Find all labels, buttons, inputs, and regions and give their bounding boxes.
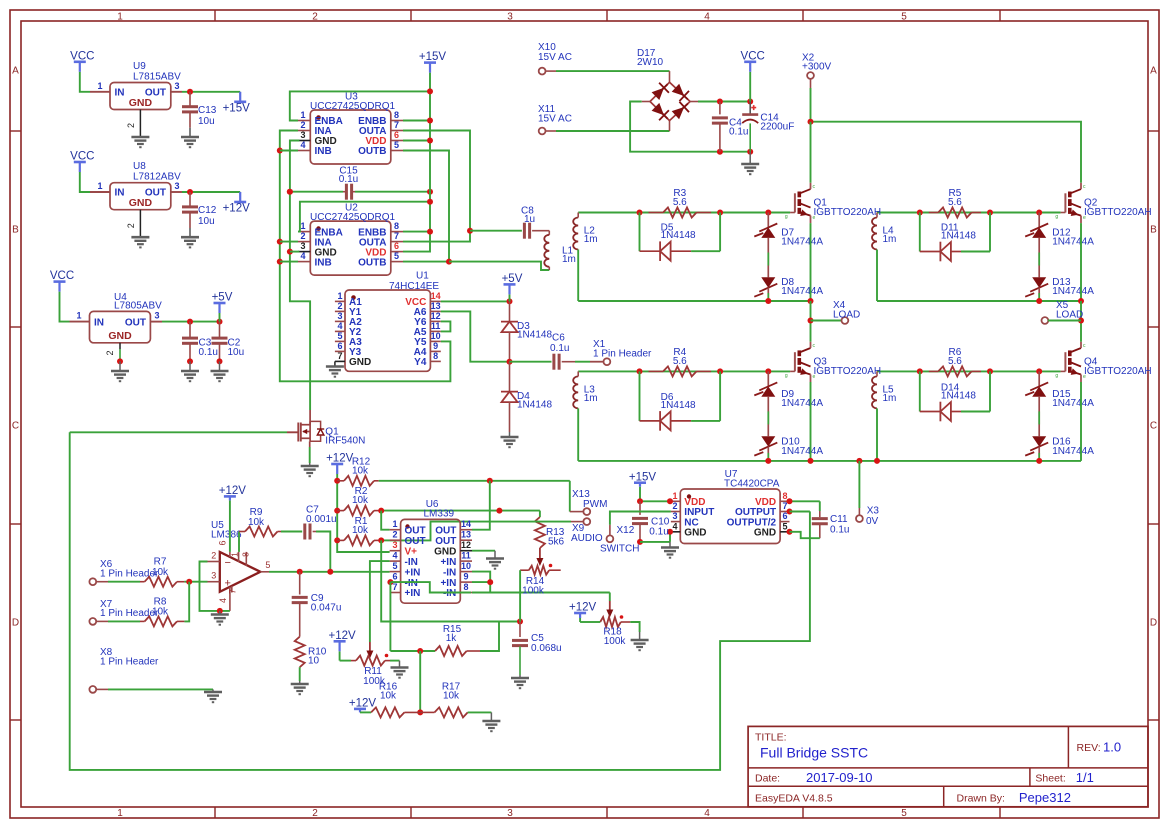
svg-text:GND: GND bbox=[349, 357, 371, 368]
svg-text:1N4744A: 1N4744A bbox=[781, 286, 823, 297]
svg-text:1m: 1m bbox=[883, 234, 897, 245]
svg-text:2: 2 bbox=[392, 530, 397, 540]
svg-text:1m: 1m bbox=[584, 393, 598, 404]
svg-text:VCC: VCC bbox=[741, 50, 765, 62]
svg-text:5.6: 5.6 bbox=[673, 197, 687, 208]
svg-text:10k: 10k bbox=[352, 495, 369, 506]
svg-text:1N4744A: 1N4744A bbox=[1052, 237, 1094, 248]
svg-text:1: 1 bbox=[337, 291, 342, 301]
svg-text:10: 10 bbox=[461, 561, 471, 571]
svg-text:+12V: +12V bbox=[326, 453, 354, 465]
svg-text:−: − bbox=[225, 557, 231, 569]
svg-text:14: 14 bbox=[431, 291, 441, 301]
svg-text:GND: GND bbox=[434, 546, 456, 557]
svg-text:1N4744A: 1N4744A bbox=[781, 398, 823, 409]
svg-text:IGBTTO220AH: IGBTTO220AH bbox=[1084, 207, 1152, 218]
svg-text:OUT: OUT bbox=[405, 536, 426, 547]
svg-text:g: g bbox=[1055, 373, 1058, 379]
svg-text:INB: INB bbox=[315, 146, 332, 157]
svg-text:5: 5 bbox=[901, 808, 907, 819]
svg-text:1u: 1u bbox=[524, 214, 535, 225]
svg-text:+IN: +IN bbox=[440, 578, 456, 589]
svg-text:11: 11 bbox=[431, 321, 441, 331]
svg-text:GND: GND bbox=[684, 528, 706, 539]
svg-text:+12V: +12V bbox=[569, 602, 597, 614]
svg-text:9: 9 bbox=[463, 572, 468, 582]
svg-text:10k: 10k bbox=[152, 567, 169, 578]
svg-text:1 Pin Header: 1 Pin Header bbox=[593, 348, 652, 359]
svg-text:C11: C11 bbox=[830, 514, 848, 525]
svg-text:4: 4 bbox=[672, 521, 677, 531]
svg-text:8: 8 bbox=[241, 552, 251, 557]
svg-text:LM386: LM386 bbox=[211, 530, 242, 541]
svg-text:10: 10 bbox=[431, 331, 441, 341]
svg-text:11: 11 bbox=[461, 551, 471, 561]
svg-text:1N4148: 1N4148 bbox=[941, 231, 976, 242]
svg-text:3: 3 bbox=[300, 241, 305, 251]
svg-text:VCC: VCC bbox=[70, 50, 94, 62]
svg-text:+300V: +300V bbox=[802, 61, 832, 72]
svg-text:5: 5 bbox=[265, 560, 270, 570]
svg-text:100k: 100k bbox=[522, 586, 545, 597]
svg-text:2017-09-10: 2017-09-10 bbox=[806, 770, 873, 785]
svg-text:3: 3 bbox=[174, 181, 179, 191]
svg-text:+12V: +12V bbox=[219, 485, 247, 497]
svg-text:2: 2 bbox=[300, 231, 305, 241]
svg-text:TITLE:: TITLE: bbox=[755, 732, 787, 744]
svg-text:1.0: 1.0 bbox=[1103, 740, 1121, 755]
svg-text:10u: 10u bbox=[228, 347, 245, 358]
svg-text:C12: C12 bbox=[198, 205, 217, 216]
svg-text:1: 1 bbox=[117, 12, 123, 23]
svg-text:0.1u: 0.1u bbox=[199, 347, 218, 358]
svg-text:1: 1 bbox=[97, 81, 102, 91]
svg-text:8: 8 bbox=[394, 221, 399, 231]
svg-text:D: D bbox=[12, 618, 19, 629]
svg-text:B: B bbox=[1150, 225, 1157, 236]
svg-text:10k: 10k bbox=[352, 525, 369, 536]
svg-text:5.6: 5.6 bbox=[673, 356, 687, 367]
svg-text:5: 5 bbox=[394, 251, 399, 261]
svg-text:6: 6 bbox=[217, 540, 227, 545]
svg-text:1: 1 bbox=[230, 552, 240, 557]
svg-text:1: 1 bbox=[97, 181, 102, 191]
svg-text:+12V: +12V bbox=[349, 698, 377, 710]
svg-text:2: 2 bbox=[312, 12, 318, 23]
svg-text:-IN: -IN bbox=[443, 567, 456, 578]
svg-text:8: 8 bbox=[433, 351, 438, 361]
svg-text:TC4420CPA: TC4420CPA bbox=[724, 479, 780, 490]
svg-text:5: 5 bbox=[782, 521, 787, 531]
svg-text:GND: GND bbox=[108, 330, 132, 342]
svg-text:LOAD: LOAD bbox=[833, 310, 860, 321]
svg-text:REV:: REV: bbox=[1077, 742, 1101, 754]
svg-text:VCC: VCC bbox=[70, 151, 94, 163]
svg-text:7: 7 bbox=[394, 231, 399, 241]
svg-text:3: 3 bbox=[300, 130, 305, 140]
svg-text:IN: IN bbox=[115, 88, 125, 99]
svg-text:2200uF: 2200uF bbox=[760, 121, 794, 132]
svg-text:OUTB: OUTB bbox=[358, 146, 386, 157]
svg-text:5.6: 5.6 bbox=[948, 197, 962, 208]
svg-text:1: 1 bbox=[300, 110, 305, 120]
svg-text:3: 3 bbox=[154, 311, 159, 321]
svg-text:X12: X12 bbox=[617, 525, 635, 536]
svg-text:VCC: VCC bbox=[50, 270, 74, 282]
svg-text:IGBTTO220AH: IGBTTO220AH bbox=[814, 366, 882, 377]
svg-text:GND: GND bbox=[129, 197, 153, 209]
svg-text:GND: GND bbox=[129, 97, 153, 109]
svg-text:Pepe312: Pepe312 bbox=[1019, 790, 1071, 805]
svg-text:10k: 10k bbox=[352, 465, 369, 476]
svg-text:15V AC: 15V AC bbox=[538, 114, 572, 125]
svg-text:IN: IN bbox=[94, 317, 104, 328]
svg-text:C13: C13 bbox=[198, 105, 217, 116]
svg-text:13: 13 bbox=[461, 530, 471, 540]
svg-text:3: 3 bbox=[337, 311, 342, 321]
svg-text:1N4148: 1N4148 bbox=[661, 400, 696, 411]
svg-text:2: 2 bbox=[300, 120, 305, 130]
svg-text:10k: 10k bbox=[380, 690, 397, 701]
svg-text:C: C bbox=[12, 421, 19, 432]
svg-text:IN: IN bbox=[115, 188, 125, 199]
svg-text:U9: U9 bbox=[133, 61, 146, 72]
svg-text:2: 2 bbox=[312, 808, 318, 819]
svg-text:+IN: +IN bbox=[405, 588, 421, 599]
svg-text:OUT: OUT bbox=[435, 525, 456, 536]
svg-text:0.001u: 0.001u bbox=[306, 514, 337, 525]
svg-text:-IN: -IN bbox=[405, 557, 418, 568]
svg-text:V+: V+ bbox=[405, 546, 418, 557]
svg-text:g: g bbox=[785, 373, 788, 379]
svg-text:4: 4 bbox=[704, 12, 710, 23]
svg-text:1 Pin Header: 1 Pin Header bbox=[100, 656, 159, 667]
svg-text:+12V: +12V bbox=[329, 630, 357, 642]
svg-text:12: 12 bbox=[431, 311, 441, 321]
svg-text:1N4744A: 1N4744A bbox=[781, 446, 823, 457]
svg-text:5: 5 bbox=[337, 331, 342, 341]
svg-text:+12V: +12V bbox=[223, 203, 251, 215]
svg-text:1m: 1m bbox=[584, 234, 598, 245]
svg-text:g: g bbox=[1055, 214, 1058, 220]
svg-text:Drawn By:: Drawn By: bbox=[957, 793, 1005, 805]
svg-text:A: A bbox=[12, 66, 19, 77]
svg-text:EasyEDA V4.8.5: EasyEDA V4.8.5 bbox=[755, 793, 833, 805]
svg-text:1N4148: 1N4148 bbox=[941, 391, 976, 402]
svg-text:C6: C6 bbox=[552, 333, 565, 344]
svg-text:3: 3 bbox=[211, 571, 216, 581]
svg-text:0.1u: 0.1u bbox=[649, 527, 668, 538]
svg-text:10u: 10u bbox=[198, 216, 215, 227]
svg-text:+IN: +IN bbox=[405, 567, 421, 578]
svg-text:10k: 10k bbox=[152, 607, 169, 618]
svg-text:4: 4 bbox=[337, 321, 342, 331]
svg-text:GND: GND bbox=[754, 528, 776, 539]
svg-text:OUTB: OUTB bbox=[358, 257, 386, 268]
svg-text:4: 4 bbox=[392, 551, 397, 561]
svg-text:AUDIO: AUDIO bbox=[571, 533, 603, 544]
svg-text:4: 4 bbox=[300, 251, 305, 261]
svg-text:100k: 100k bbox=[604, 636, 627, 647]
svg-text:1N4744A: 1N4744A bbox=[781, 237, 823, 248]
svg-text:1N4744A: 1N4744A bbox=[1052, 398, 1094, 409]
svg-text:7: 7 bbox=[337, 351, 342, 361]
svg-text:10u: 10u bbox=[198, 116, 215, 127]
svg-text:4: 4 bbox=[218, 598, 228, 603]
svg-text:Date:: Date: bbox=[755, 773, 780, 785]
svg-text:D: D bbox=[1150, 618, 1157, 629]
svg-text:1k: 1k bbox=[446, 633, 458, 644]
svg-text:+15V: +15V bbox=[223, 102, 251, 114]
svg-text:10k: 10k bbox=[248, 517, 265, 528]
svg-text:7: 7 bbox=[394, 120, 399, 130]
svg-text:1N4148: 1N4148 bbox=[661, 230, 696, 241]
svg-text:3: 3 bbox=[507, 808, 513, 819]
svg-text:2: 2 bbox=[105, 350, 115, 355]
svg-text:6: 6 bbox=[392, 572, 397, 582]
svg-text:6: 6 bbox=[337, 341, 342, 351]
svg-text:2: 2 bbox=[337, 301, 342, 311]
svg-text:5k6: 5k6 bbox=[548, 537, 565, 548]
svg-text:IGBTTO220AH: IGBTTO220AH bbox=[1084, 366, 1152, 377]
svg-text:0.068u: 0.068u bbox=[531, 643, 562, 654]
svg-text:Full Bridge SSTC: Full Bridge SSTC bbox=[760, 745, 868, 761]
svg-text:14: 14 bbox=[461, 519, 471, 529]
svg-text:PWM: PWM bbox=[583, 499, 607, 510]
svg-text:2: 2 bbox=[126, 123, 136, 128]
svg-text:5: 5 bbox=[394, 140, 399, 150]
svg-text:UCC27425QDRQ1: UCC27425QDRQ1 bbox=[310, 101, 395, 112]
svg-text:3: 3 bbox=[507, 12, 513, 23]
svg-text:+15V: +15V bbox=[629, 471, 657, 483]
svg-text:-IN: -IN bbox=[443, 588, 456, 599]
svg-text:1N4744A: 1N4744A bbox=[1052, 286, 1094, 297]
svg-text:1: 1 bbox=[117, 808, 123, 819]
svg-text:8: 8 bbox=[394, 110, 399, 120]
svg-text:5.6: 5.6 bbox=[948, 356, 962, 367]
svg-text:3: 3 bbox=[672, 511, 677, 521]
svg-text:2: 2 bbox=[126, 223, 136, 228]
svg-text:Sheet:: Sheet: bbox=[1035, 773, 1065, 785]
svg-text:15V AC: 15V AC bbox=[538, 52, 572, 63]
svg-text:1N4148: 1N4148 bbox=[517, 330, 552, 341]
svg-text:3: 3 bbox=[392, 540, 397, 550]
svg-text:INB: INB bbox=[315, 257, 332, 268]
svg-text:8: 8 bbox=[463, 582, 468, 592]
svg-text:Y4: Y4 bbox=[414, 357, 427, 368]
svg-text:LM339: LM339 bbox=[424, 509, 455, 520]
svg-text:13: 13 bbox=[431, 301, 441, 311]
svg-text:0.1u: 0.1u bbox=[729, 127, 748, 138]
svg-text:-IN: -IN bbox=[405, 578, 418, 589]
svg-text:12: 12 bbox=[461, 540, 471, 550]
svg-text:0V: 0V bbox=[866, 516, 879, 527]
svg-text:10k: 10k bbox=[443, 690, 460, 701]
svg-text:3: 3 bbox=[174, 81, 179, 91]
svg-text:A: A bbox=[1150, 66, 1157, 77]
svg-text:IRF540N: IRF540N bbox=[325, 436, 365, 447]
svg-text:+IN: +IN bbox=[440, 557, 456, 568]
svg-text:LOAD: LOAD bbox=[1056, 310, 1083, 321]
svg-text:UCC27425QDRQ1: UCC27425QDRQ1 bbox=[310, 212, 395, 223]
svg-text:0.1u: 0.1u bbox=[550, 343, 569, 354]
svg-text:+5V: +5V bbox=[502, 273, 523, 285]
svg-text:4: 4 bbox=[300, 140, 305, 150]
svg-text:5: 5 bbox=[392, 561, 397, 571]
svg-text:1N4744A: 1N4744A bbox=[1052, 446, 1094, 457]
svg-text:0.047u: 0.047u bbox=[311, 603, 342, 614]
svg-text:U8: U8 bbox=[133, 161, 146, 172]
svg-text:7: 7 bbox=[228, 589, 238, 594]
svg-text:g: g bbox=[785, 214, 788, 220]
svg-text:6: 6 bbox=[394, 241, 399, 251]
svg-text:0.1u: 0.1u bbox=[339, 174, 358, 185]
svg-text:1: 1 bbox=[392, 519, 397, 529]
svg-text:OUT: OUT bbox=[405, 525, 426, 536]
svg-text:1/1: 1/1 bbox=[1076, 770, 1094, 785]
svg-text:+5V: +5V bbox=[212, 292, 233, 304]
svg-text:2: 2 bbox=[211, 551, 216, 561]
svg-text:1m: 1m bbox=[562, 254, 576, 265]
svg-text:4: 4 bbox=[704, 808, 710, 819]
svg-text:OUT: OUT bbox=[435, 536, 456, 547]
svg-text:OUT: OUT bbox=[125, 317, 146, 328]
svg-text:B: B bbox=[12, 225, 19, 236]
svg-text:2W10: 2W10 bbox=[637, 57, 664, 68]
svg-text:1: 1 bbox=[300, 221, 305, 231]
svg-text:X3: X3 bbox=[867, 506, 880, 517]
svg-text:8: 8 bbox=[782, 491, 787, 501]
svg-text:SWITCH: SWITCH bbox=[600, 544, 639, 555]
svg-text:9: 9 bbox=[433, 341, 438, 351]
svg-text:IGBTTO220AH: IGBTTO220AH bbox=[814, 207, 882, 218]
svg-text:0.1u: 0.1u bbox=[830, 525, 849, 536]
svg-text:1N4148: 1N4148 bbox=[517, 400, 552, 411]
svg-text:10: 10 bbox=[308, 656, 320, 667]
svg-text:6: 6 bbox=[394, 130, 399, 140]
svg-text:C: C bbox=[1150, 421, 1157, 432]
svg-text:1: 1 bbox=[76, 311, 81, 321]
svg-text:7: 7 bbox=[392, 582, 397, 592]
svg-text:1m: 1m bbox=[883, 393, 897, 404]
svg-text:2: 2 bbox=[672, 501, 677, 511]
svg-text:+15V: +15V bbox=[419, 51, 447, 63]
svg-text:5: 5 bbox=[901, 12, 907, 23]
svg-text:1: 1 bbox=[672, 491, 677, 501]
